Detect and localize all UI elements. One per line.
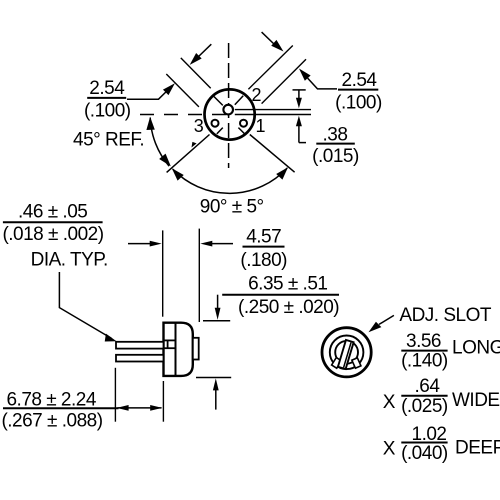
pin 3 hole (212, 120, 219, 127)
top view: 45 deg dash lower-right (238, 128, 244, 134)
lower lead (116, 355, 164, 362)
rotor notch right (352, 358, 361, 368)
svg-text:1: 1 (255, 116, 265, 136)
center line right solid (235, 114, 311, 116)
upper lead (116, 342, 164, 349)
svg-text:4.57: 4.57 (246, 226, 281, 247)
svg-text:ADJ. SLOT: ADJ. SLOT (399, 305, 491, 326)
body top surface line (203, 320, 230, 322)
svg-text:6.35 ± .51: 6.35 ± .51 (248, 273, 327, 294)
screwdriver slot (338, 340, 354, 369)
adjustment tab (193, 338, 199, 360)
rotor notch left (332, 358, 342, 369)
svg-text:X: X (383, 438, 396, 459)
lower-right diagonal (250, 135, 295, 173)
pin 1 hole (240, 120, 247, 127)
top view: horizontal center line left (140, 114, 232, 116)
pin 2 hole (223, 105, 233, 115)
dim 6.78 extension line right (162, 381, 164, 422)
svg-text:(.250 ± .020): (.250 ± .020) (238, 297, 339, 318)
top view body circle (205, 89, 255, 139)
dim .38 lower arrow (296, 116, 302, 127)
svg-text:(.040): (.040) (401, 443, 448, 464)
svg-text:X: X (383, 392, 396, 413)
top view: vertical center line (228, 43, 230, 168)
side view extension line left (body face) (162, 230, 164, 316)
45 ref arc (150, 118, 169, 167)
dim 6.78 extension line left (114, 368, 116, 422)
arrow A upper-left (197, 44, 211, 58)
arrow C upper-right (262, 32, 275, 45)
svg-text:3.56: 3.56 (406, 331, 441, 352)
svg-text:3: 3 (194, 116, 204, 136)
svg-text:(.025): (.025) (401, 396, 448, 417)
upper-left slot line outer (166, 74, 199, 107)
adj slot ring circle (330, 336, 364, 370)
svg-text:(.180): (.180) (240, 250, 287, 271)
svg-text:90° ± 5°: 90° ± 5° (200, 196, 264, 217)
svg-text:.46 ± .05: .46 ± .05 (18, 202, 87, 223)
svg-text:.64: .64 (415, 376, 441, 397)
upper-right slot line outer (262, 59, 306, 103)
top view: 45 deg dash lower-left (217, 128, 223, 134)
body bottom surface line (196, 377, 231, 379)
dim 6.78 arrows (118, 407, 162, 409)
dim 4.57 right arrow (212, 243, 233, 245)
svg-text:WIDE: WIDE (452, 390, 500, 411)
slot inner hatch line (344, 342, 351, 367)
svg-text:DEEP: DEEP (455, 438, 500, 459)
svg-text:45° REF.: 45° REF. (73, 130, 144, 151)
center pin box (165, 339, 176, 341)
dia typ leader (59, 272, 111, 338)
svg-text:(.100): (.100) (335, 93, 382, 114)
dim 4.57 left arrow (128, 243, 150, 245)
rotation tick on diagonal (189, 141, 196, 148)
svg-text:.38: .38 (323, 124, 348, 145)
dim 6.35 top arrow (217, 295, 219, 309)
top view: 45 deg dash upper-right (235, 96, 243, 105)
top view: 45 deg dash upper-left (214, 96, 223, 105)
pin 1-2 offset line right upper (235, 109, 311, 111)
svg-text:(.140): (.140) (401, 351, 448, 372)
svg-text:(.015): (.015) (312, 146, 359, 167)
svg-text:2.54: 2.54 (89, 78, 125, 99)
dim 6.35 bottom arrow (213, 378, 219, 390)
adj slot leader arrow (379, 315, 394, 324)
lower-left diagonal (167, 135, 210, 173)
svg-text:DIA. TYP.: DIA. TYP. (31, 249, 108, 270)
svg-text:(.267 ± .088): (.267 ± .088) (1, 410, 102, 431)
svg-text:LONG: LONG (452, 338, 500, 359)
svg-text:2: 2 (251, 85, 261, 105)
dim .38 upper arrow (293, 89, 306, 91)
adj slot rotor circle (335, 341, 358, 364)
upper-left slot line inner (181, 58, 211, 88)
svg-text:(.018 ± .002): (.018 ± .002) (2, 224, 103, 245)
pot body side view (164, 323, 193, 376)
leader arrow D from right 2.54 (308, 78, 337, 89)
side view extension line right (tab end) (198, 229, 200, 322)
upper-right slot line inner (248, 46, 292, 90)
svg-text:2.54: 2.54 (342, 70, 378, 91)
90 deg arc (173, 168, 287, 193)
svg-text:(.100): (.100) (84, 101, 131, 122)
adj slot outer circle (322, 328, 371, 377)
leader arrow B from left 2.54 (127, 91, 167, 99)
body inner line (175, 323, 177, 376)
